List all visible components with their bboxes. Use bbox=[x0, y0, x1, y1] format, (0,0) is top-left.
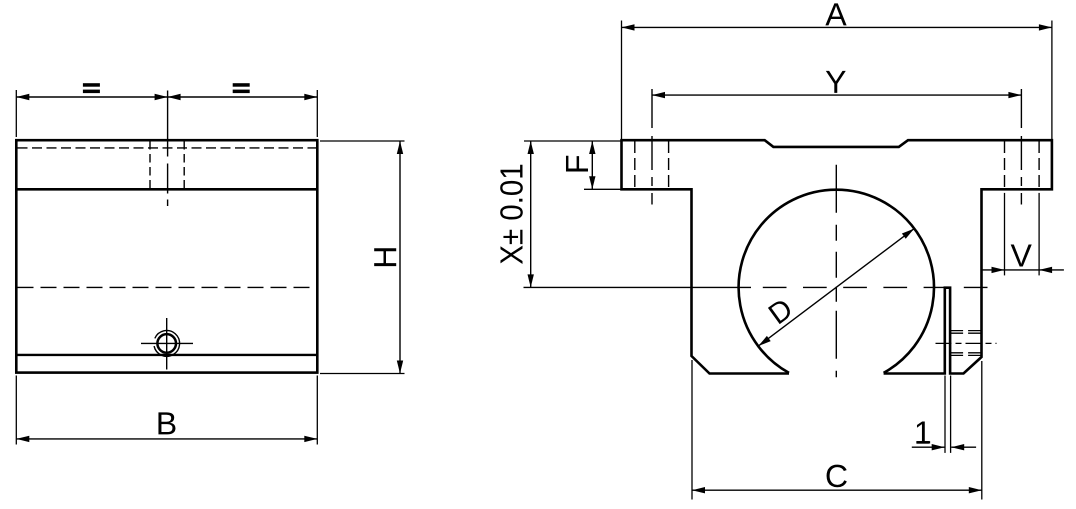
label B bbox=[158, 412, 175, 434]
bore arc bbox=[739, 190, 934, 373]
F dimension line bbox=[591, 141, 593, 189]
V dimension line bbox=[982, 269, 1064, 271]
label C bbox=[827, 465, 847, 488]
1 dimension line right bbox=[951, 446, 976, 448]
label 1 (underlined, not to scale) bbox=[916, 421, 930, 443]
D dimension arrows bbox=[758, 229, 914, 346]
A dimension line bbox=[622, 26, 1052, 28]
hidden hole right flange bbox=[1005, 141, 1040, 189]
center line right hole bbox=[1020, 89, 1022, 205]
X dimension arrows bbox=[528, 141, 534, 287]
H dimension arrows bbox=[397, 141, 403, 374]
center line top hole bbox=[167, 91, 169, 207]
B dimension line bbox=[16, 438, 317, 440]
H dimension extension lines bbox=[320, 141, 405, 374]
bore vertical centerline bbox=[835, 165, 837, 378]
A dimension extension lines bbox=[622, 21, 1052, 140]
label H bbox=[374, 248, 396, 266]
left view outline bbox=[16, 140, 317, 372]
1 dimension extension lines bbox=[945, 376, 951, 453]
hidden hole left flange bbox=[635, 141, 669, 189]
V dimension extension lines bbox=[1005, 193, 1040, 276]
center line left hole bbox=[651, 89, 653, 205]
label D bbox=[768, 298, 794, 324]
1 dimension arrows bbox=[932, 444, 965, 450]
bore horizontal centerline solid part / X extension bbox=[524, 286, 752, 288]
X dimension extension line top bbox=[524, 140, 622, 142]
H dimension line bbox=[399, 141, 401, 374]
F dimension extension line bottom bbox=[584, 188, 622, 190]
equal-spacing dimension line bbox=[16, 96, 317, 98]
C dimension extension lines bbox=[692, 360, 982, 500]
thread hole centerline vertical bbox=[166, 318, 168, 370]
F dimension arrows bbox=[589, 141, 595, 189]
thread hole centerline right foot bbox=[936, 342, 997, 344]
Y dimension line bbox=[652, 94, 1021, 96]
D diameter dimension line bbox=[758, 229, 914, 346]
C dimension arrows bbox=[692, 487, 982, 493]
label = left bbox=[83, 83, 100, 93]
hidden line mid bbox=[18, 286, 317, 288]
Y dimension arrows bbox=[652, 92, 1021, 98]
thread circle M-hole bbox=[154, 331, 180, 357]
thread hole hidden lines right foot bbox=[950, 331, 981, 356]
thread hole centerline horizontal bbox=[141, 342, 193, 344]
label A bbox=[825, 3, 846, 25]
label V bbox=[1011, 244, 1032, 266]
label F bbox=[566, 156, 588, 172]
label 1 underline bbox=[917, 441, 929, 444]
left view flange bottom line bbox=[16, 188, 317, 191]
X dimension line bbox=[530, 141, 532, 287]
C dimension line bbox=[692, 489, 982, 491]
hidden hole left edge bbox=[149, 141, 151, 189]
equal-spacing dimension extension lines bbox=[16, 90, 317, 137]
B dimension arrows bbox=[16, 436, 317, 442]
bore horizontal centerline dashed part bbox=[763, 286, 997, 288]
1 dimension line left bbox=[912, 446, 945, 448]
A dimension arrows bbox=[622, 24, 1052, 30]
hidden hole right edge bbox=[183, 141, 185, 189]
left view foot line bbox=[16, 354, 317, 356]
label = right bbox=[233, 83, 250, 93]
label Y bbox=[826, 71, 846, 93]
V dimension arrows bbox=[992, 267, 1053, 273]
label X± 0.01 bbox=[500, 165, 523, 264]
right view outline with bore bbox=[622, 140, 1052, 373]
hidden line top (counterbore depth) bbox=[18, 147, 317, 149]
equal-spacing dimension arrows bbox=[16, 94, 317, 100]
B dimension extension lines bbox=[16, 376, 317, 445]
